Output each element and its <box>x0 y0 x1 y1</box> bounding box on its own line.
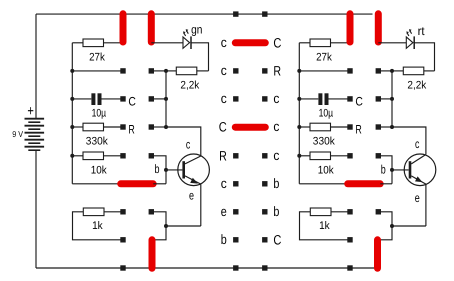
junction bus row4 R <box>297 125 301 129</box>
red jumper rail to row1 col1 R <box>347 14 354 42</box>
svg-text:1k: 1k <box>92 220 103 232</box>
wire collector feed L <box>166 127 201 156</box>
resistor 2.2k R <box>403 67 424 75</box>
svg-text:10µ: 10µ <box>319 107 334 119</box>
wire 1k right R <box>331 211 350 213</box>
pad mid col1 row2 <box>233 68 238 73</box>
red jumper row6 L <box>121 180 154 187</box>
wire node to 2.2k L <box>166 70 176 72</box>
junction bus row2 L <box>70 69 74 73</box>
pad col2 row7 L <box>149 209 154 214</box>
svg-text:c: c <box>415 137 419 151</box>
junction bus row5 L <box>70 154 74 158</box>
wire 27k right R <box>331 42 351 44</box>
battery BT1 9V <box>25 119 45 151</box>
wire LED cathode L <box>191 43 209 71</box>
wire row6 jumper to base node L <box>153 183 166 185</box>
wire col2 row3 to node R <box>378 98 392 100</box>
wire LED cathode R <box>414 43 434 71</box>
pad mid col2 row7 <box>262 209 267 214</box>
junction node row3 L <box>164 97 168 101</box>
wire emitter node to row8 jumper L <box>154 226 166 240</box>
svg-text:10k: 10k <box>318 164 334 176</box>
svg-text:c: c <box>221 35 227 50</box>
wire col2 row5 to base node L <box>151 156 166 184</box>
junction base node L <box>164 168 168 172</box>
svg-text:e: e <box>221 204 227 219</box>
svg-text:C: C <box>273 35 281 50</box>
pad col1 row5 R <box>347 153 352 158</box>
svg-text:10µ: 10µ <box>92 107 107 119</box>
pad mid col1 bottom rail <box>233 265 238 270</box>
pad col1 row8 R <box>347 237 352 242</box>
pad col2 row5 R <box>376 153 381 158</box>
red jumper mid row1 <box>235 39 265 46</box>
resistor 27k L <box>83 39 104 47</box>
svg-text:330k: 330k <box>313 135 335 147</box>
wire emitter node to row8 jumper R <box>380 226 393 240</box>
svg-text:c: c <box>186 137 190 151</box>
svg-text:b: b <box>155 162 160 176</box>
resistor 10k L <box>83 152 104 160</box>
svg-text:C: C <box>355 95 363 109</box>
pad col1 row4 R <box>347 124 352 129</box>
wire row3 bus to cap R <box>299 98 318 100</box>
wire 10k right R <box>331 155 351 157</box>
pad mid col2 row8 <box>262 237 267 242</box>
wire emitter to node L <box>166 225 201 227</box>
pad mid col2 row3 <box>262 96 267 101</box>
wire col2 row5 to base node R <box>378 156 392 184</box>
junction bus row2 R <box>297 69 301 73</box>
junction node row4 R <box>390 125 394 129</box>
pad col1 row3 L <box>120 96 125 101</box>
svg-text:27k: 27k <box>316 52 332 64</box>
svg-text:27k: 27k <box>89 52 105 64</box>
red jumper row8 to rail R <box>374 240 381 268</box>
wire LED anode R <box>378 42 406 44</box>
svg-text:R: R <box>128 122 134 136</box>
wire collector node vertical R <box>391 71 393 127</box>
junction base node R <box>390 168 394 172</box>
svg-text:2,2k: 2,2k <box>407 80 426 92</box>
pad col1 row7 R <box>347 209 352 214</box>
svg-text:R: R <box>219 148 227 163</box>
wire LED anode L <box>151 42 183 44</box>
svg-text:rt: rt <box>418 24 426 38</box>
red jumper row8 to rail L <box>149 240 156 268</box>
pad col1 row7 L <box>120 209 125 214</box>
red jumper rail to row1 col2 L <box>148 14 155 42</box>
junction emitter node L <box>164 224 168 228</box>
pad mid col2 row2 <box>262 68 267 73</box>
svg-text:10k: 10k <box>91 164 107 176</box>
wire 27k left R <box>299 42 310 44</box>
svg-text:R: R <box>355 122 361 136</box>
svg-text:b: b <box>273 204 279 219</box>
resistor 10k R <box>310 152 331 160</box>
wire col2 row4 to node R <box>378 126 392 128</box>
wire 2.2k right R <box>424 70 435 72</box>
junction bus row4 L <box>70 125 74 129</box>
svg-text:c: c <box>221 91 227 106</box>
junction emitter node R <box>390 224 394 228</box>
svg-text:330k: 330k <box>86 135 108 147</box>
pad col1 bottom rail R <box>347 265 352 270</box>
wire top rail <box>36 13 373 15</box>
pad mid col1 row5 <box>233 153 238 158</box>
wire 1k loop R <box>300 212 351 240</box>
pad col2 row5 L <box>149 153 154 158</box>
svg-text:R: R <box>273 64 281 79</box>
junction node row3 R <box>390 97 394 101</box>
LED light arrows R <box>406 29 411 36</box>
resistor 1k R <box>310 208 331 216</box>
pad col1 row4 L <box>120 124 125 129</box>
wire bus vertical L <box>71 43 73 184</box>
pad col1 bottom rail L <box>120 265 125 270</box>
pad col2 row2 L <box>149 68 154 73</box>
pad col1 row5 L <box>120 153 125 158</box>
pad mid col2 row5 <box>262 153 267 158</box>
wire bus vertical R <box>298 43 300 184</box>
wire 27k right L <box>104 42 124 44</box>
svg-text:c: c <box>273 148 279 163</box>
wire row4 bus to 330k L <box>72 126 83 128</box>
wire bus to row6 jumper R <box>299 183 346 185</box>
wire battery negative lead <box>35 150 37 268</box>
wire emitter to node R <box>392 225 426 227</box>
pad col1 row3 R <box>347 96 352 101</box>
wire row2 bus to col1 R <box>299 70 350 72</box>
wire collector node vertical L <box>165 71 167 127</box>
red jumper mid row4 <box>235 124 265 131</box>
wire 1k loop L <box>73 212 124 240</box>
LED D1 gn <box>183 36 191 49</box>
red jumper rail to row1 col1 L <box>120 14 127 42</box>
wire 10k right L <box>104 155 124 157</box>
svg-text:c: c <box>273 119 279 134</box>
red jumper rail to row1 col2 R <box>375 14 382 42</box>
resistor 1k L <box>83 208 104 216</box>
junction node row2 L <box>164 69 168 73</box>
capacitor 10u L <box>91 93 101 105</box>
pad col2 row4 L <box>149 124 154 129</box>
wire cap to col1 R <box>328 98 350 100</box>
junction node row4 L <box>164 125 168 129</box>
wire bus to row6 jumper L <box>72 183 119 185</box>
wire node to 2.2k R <box>392 70 403 72</box>
svg-text:c: c <box>221 176 227 191</box>
resistor 330k R <box>310 123 331 131</box>
pad mid col2 row6 <box>262 181 267 186</box>
svg-text:c: c <box>273 91 279 106</box>
wire col2 row4 to node L <box>151 126 166 128</box>
pad mid col2 top rail <box>262 11 267 16</box>
wire base L <box>166 169 182 171</box>
junction bus row3 L <box>70 97 74 101</box>
wire col2 row7 to emitter node L <box>151 212 166 226</box>
pad col2 row2 R <box>376 68 381 73</box>
pad col2 row4 R <box>376 124 381 129</box>
pad col1 row2 L <box>120 68 125 73</box>
junction bus row5 R <box>297 154 301 158</box>
LED light arrows L <box>183 29 188 36</box>
pad col1 row2 R <box>347 68 352 73</box>
wire row5 bus to 10k L <box>72 155 83 157</box>
svg-text:2,2k: 2,2k <box>180 80 199 92</box>
svg-text:b: b <box>273 176 279 191</box>
svg-text:1k: 1k <box>319 220 330 232</box>
svg-text:e: e <box>415 191 420 205</box>
wire row4 bus to 330k R <box>299 126 310 128</box>
pad mid col1 row7 <box>233 209 238 214</box>
wire col2 row3 to node L <box>151 98 166 100</box>
wire bottom rail <box>36 267 374 269</box>
wire row3 bus to cap L <box>72 98 91 100</box>
resistor 330k L <box>83 123 104 131</box>
LED D2 rt <box>406 36 414 49</box>
pad mid col1 row3 <box>233 96 238 101</box>
svg-text:C: C <box>273 232 281 247</box>
wire col2 row2 to node L <box>151 70 166 72</box>
svg-text:e: e <box>189 189 194 203</box>
svg-text:b: b <box>221 232 227 247</box>
wire col2 row2 to node R <box>378 70 392 72</box>
pad mid col1 top rail <box>233 11 238 16</box>
wire 330k right R <box>331 126 351 128</box>
svg-text:C: C <box>219 120 227 135</box>
svg-text:b: b <box>381 162 386 176</box>
capacitor 10u R <box>318 93 328 105</box>
wire cap to col1 L <box>101 98 123 100</box>
junction node row2 R <box>390 69 394 73</box>
wire emitter down R <box>425 184 427 226</box>
pad mid col1 row6 <box>233 181 238 186</box>
wire battery positive lead <box>35 14 37 119</box>
pad mid col2 bottom rail <box>262 265 267 270</box>
wire row6 jumper to base node R <box>380 183 392 185</box>
wire row5 bus to 10k R <box>299 155 310 157</box>
svg-text:c: c <box>221 63 227 78</box>
resistor 27k R <box>310 39 331 47</box>
svg-text:C: C <box>128 95 136 109</box>
transistor Q1 <box>178 154 210 186</box>
pad col1 row8 L <box>120 237 125 242</box>
resistor 2.2k L <box>176 67 197 75</box>
svg-text:+: + <box>27 103 34 119</box>
svg-text:gn: gn <box>191 22 202 36</box>
wire collector feed R <box>392 127 426 154</box>
wire 330k right L <box>104 126 124 128</box>
pad col2 row3 R <box>376 96 381 101</box>
wire base R <box>392 169 409 171</box>
wire 27k left L <box>72 42 83 44</box>
transistor Q2 <box>404 154 436 186</box>
red jumper row6 R <box>348 180 381 187</box>
pad mid col1 row8 <box>233 237 238 242</box>
junction bus row3 R <box>297 97 301 101</box>
wire 1k right L <box>104 211 123 213</box>
wire col2 row7 to emitter node R <box>378 212 392 226</box>
wire 2.2k right L <box>197 70 209 72</box>
wire emitter down L <box>200 184 202 226</box>
pad col2 row7 R <box>376 209 381 214</box>
pad col2 row3 L <box>149 96 154 101</box>
wire row2 bus to col1 L <box>72 70 123 72</box>
svg-text:9 V: 9 V <box>12 129 23 139</box>
